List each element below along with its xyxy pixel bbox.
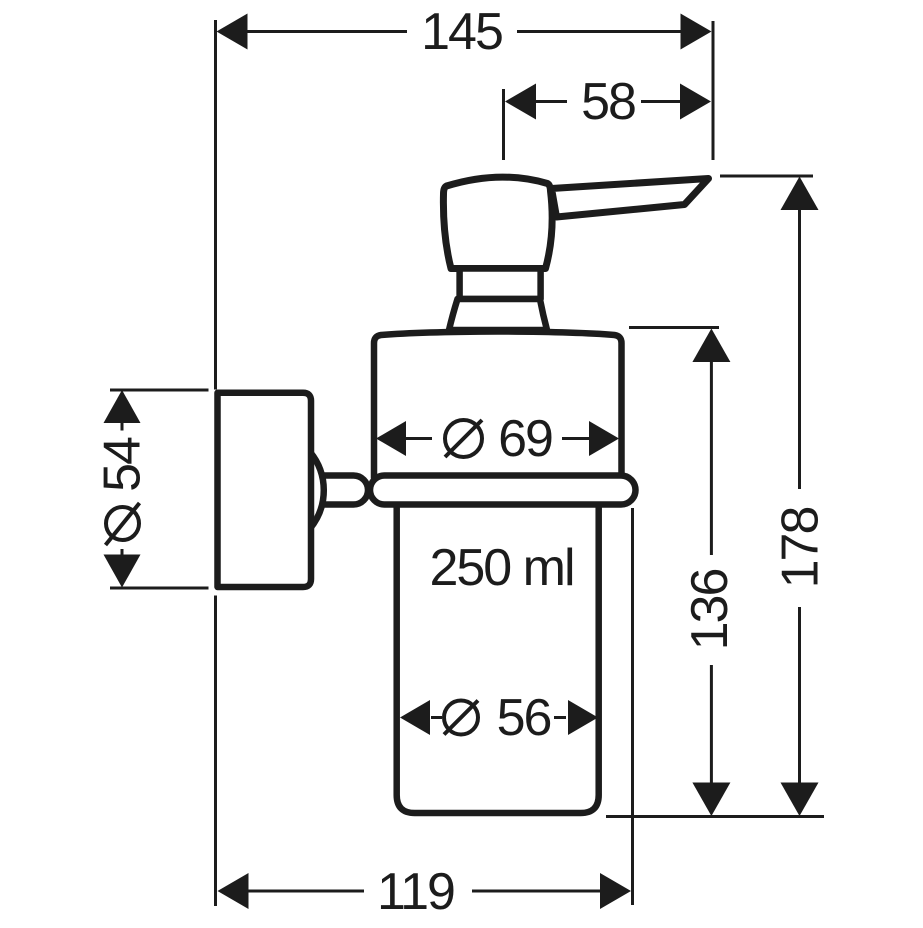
support arm [323,476,368,505]
arrow 145 right [681,14,712,50]
diameter symbol for 56 [444,701,478,735]
svg-text:178: 178 [772,508,830,589]
arrow 145 left [217,14,248,50]
arrow 178 down [781,783,819,817]
extension line spout tip [720,175,813,178]
arrow 56 right [568,700,598,735]
svg-text:69: 69 [498,410,552,468]
extension line left vertical (wall line) [214,20,217,906]
dimension line 145 [246,30,682,33]
arrow 136 up [692,329,730,363]
svg-text:54: 54 [94,437,152,492]
arrow 69 left [376,421,406,456]
arrow 178 up [781,177,819,211]
arrow 58 right [680,84,711,120]
extension line collar-right vertical [631,508,634,905]
dimension line 178 [798,209,801,783]
holder body (Ø69 cup) [374,332,622,479]
dimension line 54 [121,423,124,556]
extension line plate bottom [110,587,209,590]
wall plate [218,393,312,587]
svg-text:145: 145 [421,3,502,61]
pump neck flare [449,299,547,330]
svg-text:250 ml: 250 ml [429,539,573,597]
pump spout lever [552,179,709,218]
arrow 56 left [400,700,430,735]
extension line body top [629,326,719,329]
bottle (250 ml) [397,504,599,813]
svg-text:58: 58 [581,73,635,131]
arrow 136 down [692,783,730,817]
arrow 54 down [104,555,141,588]
pump head [443,177,552,268]
extension line 58-left vertical [502,89,505,160]
arrow 58 left [505,84,536,120]
svg-text:136: 136 [681,570,739,651]
extension line right-top vertical [712,21,715,160]
dimension line 136 [710,361,713,783]
dimension line 69 [406,437,589,440]
diameter symbol for 54 (rotated position) [106,507,139,540]
diameter symbol for 69 [445,420,482,457]
svg-text:119: 119 [377,863,454,921]
extension line bottle bottom [606,815,824,818]
dimension line 56 [431,716,566,719]
mount bump arc [310,452,324,529]
pump neck band [460,269,541,300]
arrow 69 right [589,421,619,456]
arrow 119 right [600,873,631,909]
dimension line 119 [247,890,602,893]
collar ring [370,476,636,505]
svg-text:56: 56 [497,689,551,747]
dimension line 58 [534,100,682,103]
arrow 119 left [218,873,249,909]
arrow 54 up [104,390,141,423]
extension line plate top [110,389,209,392]
